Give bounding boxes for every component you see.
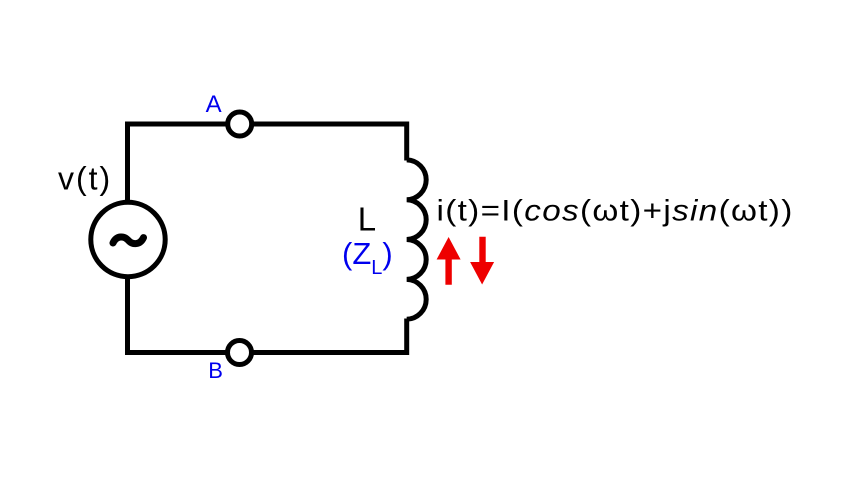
wire left bottom segment (source to B) xyxy=(125,240,130,356)
svg-text:(ZL): (ZL) xyxy=(342,236,393,279)
svg-text:A: A xyxy=(206,91,222,118)
wire bottom segment (B to inductor) xyxy=(128,350,407,355)
AC source sine symbol (tilde) xyxy=(113,237,144,244)
svg-text:i(t)=I(cos(ωt)+jsin(ωt)): i(t)=I(cos(ωt)+jsin(ωt)) xyxy=(437,193,794,227)
svg-text:v(t): v(t) xyxy=(58,161,112,197)
inductor L (coil, 4 arcs) xyxy=(407,160,426,319)
AC voltage source V1 circle xyxy=(91,202,165,276)
current direction arrow up (red) xyxy=(437,237,461,285)
terminal node A (open circle) xyxy=(228,112,252,136)
svg-text:B: B xyxy=(208,358,223,383)
current direction arrow down (red) xyxy=(470,237,494,285)
wire left segment (source to top) xyxy=(125,122,130,240)
svg-text:L: L xyxy=(358,201,376,238)
wire right bottom stub xyxy=(404,319,409,356)
wire right top stub xyxy=(404,122,409,161)
wire top segment (A to inductor) xyxy=(128,122,407,127)
terminal node B (open circle) xyxy=(228,341,252,365)
